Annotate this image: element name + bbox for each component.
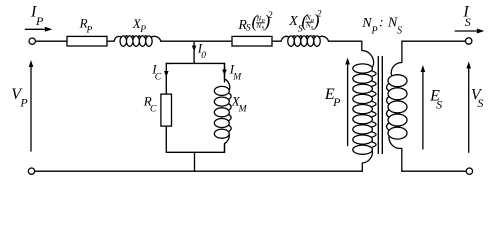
svg-text:S: S xyxy=(465,15,471,29)
svg-text:2: 2 xyxy=(317,10,322,20)
svg-text:P: P xyxy=(371,26,378,37)
svg-text:C: C xyxy=(150,105,157,115)
svg-text:P: P xyxy=(35,14,44,28)
svg-text:S: S xyxy=(436,98,442,112)
svg-text:0: 0 xyxy=(201,51,206,61)
svg-text:C: C xyxy=(155,73,162,83)
svg-text:M: M xyxy=(232,73,242,83)
svg-text:S: S xyxy=(246,24,251,34)
svg-text:P: P xyxy=(332,95,341,109)
svg-text:2: 2 xyxy=(268,11,273,21)
svg-text:M: M xyxy=(238,105,248,115)
svg-text::: : xyxy=(379,15,384,30)
svg-text:S: S xyxy=(397,26,402,37)
svg-text:P: P xyxy=(139,25,146,35)
svg-text:P: P xyxy=(19,96,28,110)
svg-text:S: S xyxy=(477,96,483,110)
svg-text:X: X xyxy=(288,14,298,29)
svg-text:P: P xyxy=(86,25,93,35)
